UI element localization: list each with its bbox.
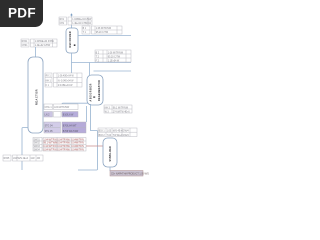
svg-text:TW 4E+0: TW 4E+0 — [113, 135, 123, 137]
svg-text:99.1 W/TW/N: 99.1 W/TW/N — [43, 143, 57, 145]
svg-text:GW/4: GW/4 — [123, 131, 130, 133]
svg-text:GW/4: GW/4 — [123, 135, 130, 137]
wire V2 side draw down left — [22, 128, 28, 171]
svg-text:B10/LN W: B10/LN W — [63, 115, 74, 117]
svg-text:CH1: CH1 — [60, 23, 65, 25]
stream table T4 — [95, 50, 131, 62]
svg-text:W 3: W 3 — [105, 111, 110, 113]
PDF badge — [0, 0, 43, 27]
svg-text:REACTOR: REACTOR — [34, 89, 38, 105]
svg-text:0.04/TF/NW: 0.04/TF/NW — [57, 139, 70, 141]
svg-text:STG 05: STG 05 — [45, 131, 54, 133]
stream row R1 — [44, 104, 78, 110]
svg-text:7.04: 7.04 — [107, 135, 112, 137]
svg-text:1.06:40E+04 W: 1.06:40E+04 W — [58, 76, 75, 78]
wire from vessel V1 right side at y35 — [78, 35, 131, 37]
wire V4 bottom to product row G — [109, 167, 111, 171]
product row G — [110, 171, 154, 177]
vessel V1 reformer — [66, 28, 78, 53]
svg-text:0.04W/TF/N: 0.04W/TF/N — [71, 150, 84, 152]
svg-text:2:0.05E+04 W: 2:0.05E+04 W — [58, 85, 73, 87]
svg-text:STG 04: STG 04 — [45, 125, 54, 127]
svg-text:STABILIZER: STABILIZER — [109, 146, 112, 162]
stream table TD — [98, 128, 137, 137]
svg-text:C5+ NAPHTHA PRODUCT 1.05 W/S G: C5+ NAPHTHA PRODUCT 1.05 W/S GW — [111, 173, 149, 176]
svg-text:N: 0.04E+04 W: N: 0.04E+04 W — [58, 80, 74, 82]
svg-text:96.1 W/TF/NW: 96.1 W/TF/NW — [113, 107, 129, 109]
wire absorber top product at y71 — [94, 70, 132, 72]
svg-text:B70/LN4 W/T: B70/LN4 W/T — [63, 125, 77, 127]
svg-text:1.0459E+04 F/NW: 1.0459E+04 F/NW — [72, 19, 92, 21]
vessel V3 absorber — [87, 75, 103, 105]
svg-text:95.20 C/TW: 95.20 C/TW — [108, 56, 121, 58]
wire absorber bottom to row R1 — [62, 103, 88, 106]
svg-text:SW01: SW01 — [34, 139, 41, 141]
stream table T1 — [59, 17, 92, 25]
wire from table T2 to vessel V2 top — [35, 47, 37, 57]
wire drop into absorber V3 top — [89, 63, 91, 76]
vessel V2 fractionator — [28, 57, 43, 133]
svg-text:274 W/TW 4E+0: 274 W/TW 4E+0 — [113, 111, 131, 113]
svg-text:1.05: 1.05 — [107, 131, 112, 133]
svg-text:B03 2: B03 2 — [99, 135, 106, 137]
svg-text:0.04 W/TF/N: 0.04 W/TF/N — [43, 150, 56, 152]
wire connector into lavender table — [86, 106, 88, 122]
svg-text:1.4E+02 C/HW: 1.4E+02 C/HW — [35, 45, 51, 47]
stream table T3 — [45, 73, 82, 87]
svg-text:0.04/TF/NW: 0.04/TF/NW — [57, 146, 70, 148]
svg-text:1.04 W/TF/N: 1.04 W/TF/N — [43, 139, 56, 141]
svg-text:0.04/TF/NW: 0.04/TF/NW — [57, 143, 70, 145]
svg-text:1.1E+04 W: 1.1E+04 W — [108, 60, 120, 62]
svg-text:NH 3: NH 3 — [105, 107, 111, 109]
stream table F — [3, 155, 43, 161]
svg-text:1.06 W/TF/NW: 1.06 W/TF/NW — [108, 52, 124, 54]
svg-text:95.20 C/TW: 95.20 C/TW — [96, 32, 109, 34]
stream row R2 lavender — [44, 112, 78, 118]
svg-text:REFORMER: REFORMER — [69, 31, 72, 47]
wire absorber bottoms long run — [78, 104, 98, 170]
svg-text:LN 2: LN 2 — [45, 115, 51, 117]
svg-text:SW03: SW03 — [34, 146, 41, 148]
svg-text:RX 1: RX 1 — [46, 76, 52, 78]
wire red stream to vessel V4 — [86, 145, 103, 147]
svg-text:1.06 W/TF/NW: 1.06 W/TF/NW — [96, 28, 112, 30]
svg-text:REGENERATOR: REGENERATOR — [98, 80, 101, 101]
stream table TR red — [33, 138, 86, 152]
svg-text:0.04/TF/NW: 0.04/TF/NW — [57, 150, 70, 152]
wire horizontal overhead stream at y62 — [72, 62, 132, 64]
svg-text:0.04W/TF/N: 0.04W/TF/N — [71, 143, 84, 145]
svg-text:SW04: SW04 — [34, 150, 41, 152]
wire from vessel V1 bottom down to table T3 — [71, 53, 73, 73]
svg-text:CHG 1: CHG 1 — [45, 107, 53, 109]
svg-text:NH 1: NH 1 — [46, 80, 52, 82]
stream table T5 — [82, 26, 122, 34]
stream table TA — [104, 105, 132, 113]
page background — [0, 0, 149, 198]
wire from vessel V1 top to table T1 — [71, 25, 73, 28]
feed arrow above table T1 — [70, 13, 73, 16]
svg-text:RX1: RX1 — [60, 19, 65, 21]
svg-text:CH01: CH01 — [22, 45, 29, 47]
svg-text:SW02: SW02 — [34, 143, 41, 145]
svg-text:LN0 W/TF/NW: LN0 W/TF/NW — [54, 107, 70, 109]
svg-text:RX01: RX01 — [22, 41, 28, 43]
svg-text:1.0459E+04 F/NW: 1.0459E+04 F/NW — [35, 41, 55, 43]
svg-text:PDF: PDF — [8, 6, 36, 21]
stream table R34 lavender — [44, 122, 86, 133]
stream table T2 — [21, 39, 57, 47]
svg-text:0.04W/TF/N: 0.04W/TF/N — [71, 139, 84, 141]
svg-text:ABSORBER: ABSORBER — [89, 83, 92, 101]
svg-text:B706 W/LT/4W: B706 W/LT/4W — [63, 131, 79, 133]
svg-text:W/S 4E+0: W/S 4E+0 — [18, 158, 29, 160]
svg-text:RX05: RX05 — [4, 158, 10, 160]
svg-text:B03 1: B03 1 — [99, 131, 106, 133]
svg-text:1.4E+02 C/HW 04: 1.4E+02 C/HW 04 — [72, 23, 91, 25]
vessel V4 stabilizer — [103, 138, 117, 167]
svg-text:0.44 W/TF/N: 0.44 W/TF/N — [43, 146, 56, 148]
svg-text:0.04W/TF/N: 0.04W/TF/N — [71, 146, 84, 148]
